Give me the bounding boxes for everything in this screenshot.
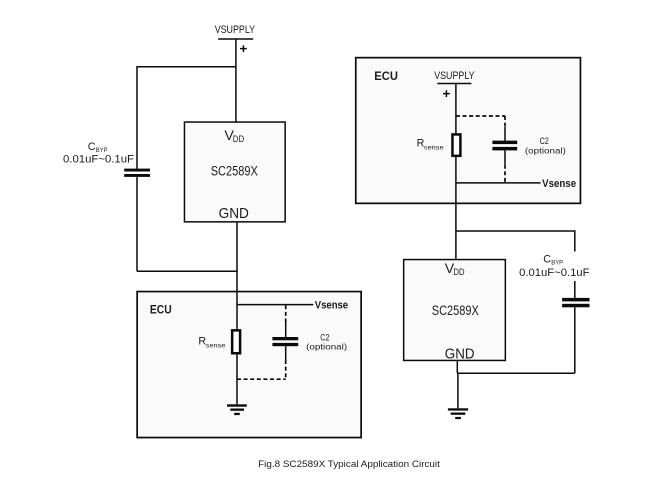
- supply rail bar (right): [437, 83, 471, 85]
- svg-text:SC2589X: SC2589X: [432, 303, 479, 318]
- svg-text:VSUPPLY: VSUPPLY: [215, 24, 255, 36]
- svg-text:C2: C2: [540, 136, 549, 146]
- wire Vsense tap (right, horizontal): [456, 182, 541, 184]
- capacitor C2 top dashed lead (right): [504, 116, 506, 127]
- svg-text:GND: GND: [445, 346, 475, 363]
- wire CBYP return to GND net (left, horizontal): [137, 270, 238, 272]
- wire VSUPPLY rail to U1 VDD pin (left): [235, 39, 237, 122]
- svg-text:C: C: [543, 253, 551, 265]
- capacitor C2 plates (right): [492, 141, 517, 145]
- svg-text:ECU: ECU: [374, 69, 398, 83]
- ECU block box (left): [137, 292, 361, 438]
- ground symbol (right): [448, 408, 468, 410]
- svg-text:sense: sense: [424, 144, 444, 151]
- wire branch to CBYP (left, horizontal): [137, 66, 236, 68]
- svg-text:SC2589X: SC2589X: [211, 164, 258, 179]
- svg-text:VSUPPLY: VSUPPLY: [434, 70, 474, 82]
- svg-text:Vsense: Vsense: [542, 178, 576, 190]
- resistor Rsense body (left): [232, 330, 240, 353]
- wire Rsense bottom to ground (left): [236, 354, 238, 405]
- capacitor C2 top solid lead (left): [285, 322, 287, 337]
- capacitor CBYP plates (right): [562, 298, 589, 302]
- wire CBYP top lead (left, vertical): [136, 66, 138, 169]
- capacitor C2 bottom dashed lead (right): [504, 165, 506, 183]
- wire CBYP bottom lead (left, vertical): [136, 177, 138, 271]
- ground symbol (left): [227, 404, 247, 406]
- svg-text:(optional): (optional): [525, 145, 566, 155]
- svg-text:BYP: BYP: [551, 260, 563, 267]
- wire CBYP top lead (right, vertical): [574, 230, 576, 298]
- svg-text:0.01uF~0.1uF: 0.01uF~0.1uF: [519, 267, 590, 279]
- svg-text:Fig.8 SC2589X Typical Applicat: Fig.8 SC2589X Typical Application Circui…: [258, 459, 440, 470]
- capacitor C2 bottom solid lead (left): [285, 346, 287, 360]
- polarity + mark (right): [443, 90, 450, 97]
- wire branch to CBYP top (right, horizontal): [456, 230, 575, 232]
- capacitor C2 top solid lead (right): [504, 127, 506, 141]
- polarity + mark (left): [240, 45, 247, 52]
- svg-text:0.01uF~0.1uF: 0.01uF~0.1uF: [63, 154, 134, 166]
- wire U1 GND pin down into ECU (left): [236, 223, 238, 330]
- wire CBYP bottom lead (right, vertical): [574, 307, 576, 373]
- op-amp U1 SC2589X body box (left): [184, 122, 285, 222]
- svg-text:Vsense: Vsense: [315, 299, 348, 311]
- op-amp U2 SC2589X body box (right): [404, 260, 506, 361]
- wire CBYP return to GND net (right, horizontal): [457, 372, 575, 374]
- wire U2 GND pin down (right): [456, 361, 458, 373]
- capacitor C2 bottom dashed lead (left): [285, 360, 287, 379]
- capacitor CBYP plates (left): [124, 169, 150, 172]
- dashed branch to C2 top (right, horizontal): [456, 115, 505, 117]
- supply rail bar (left): [218, 38, 253, 40]
- capacitor C2 plates (left): [272, 337, 298, 340]
- wire Vsense tap (left, horizontal): [237, 304, 313, 306]
- dashed return C2 to ground net (left, horizontal): [237, 378, 286, 380]
- svg-text:C: C: [88, 141, 96, 153]
- svg-text:DD: DD: [453, 267, 465, 277]
- capacitor C2 top dashed lead (left): [285, 305, 287, 322]
- svg-text:ECU: ECU: [150, 303, 172, 317]
- ECU block box (right): [356, 58, 581, 204]
- svg-text:DD: DD: [233, 134, 245, 144]
- capacitor CBYP label background (right): [518, 252, 592, 282]
- svg-text:(optional): (optional): [306, 342, 347, 352]
- svg-text:sense: sense: [206, 342, 226, 349]
- wire VSUPPLY rail through Rsense net down to U2 VDD (right): [455, 84, 457, 259]
- capacitor C2 bottom solid lead (right): [504, 150, 506, 164]
- svg-text:GND: GND: [219, 205, 249, 222]
- resistor Rsense body (right): [452, 134, 460, 155]
- ground stem (right): [457, 373, 459, 408]
